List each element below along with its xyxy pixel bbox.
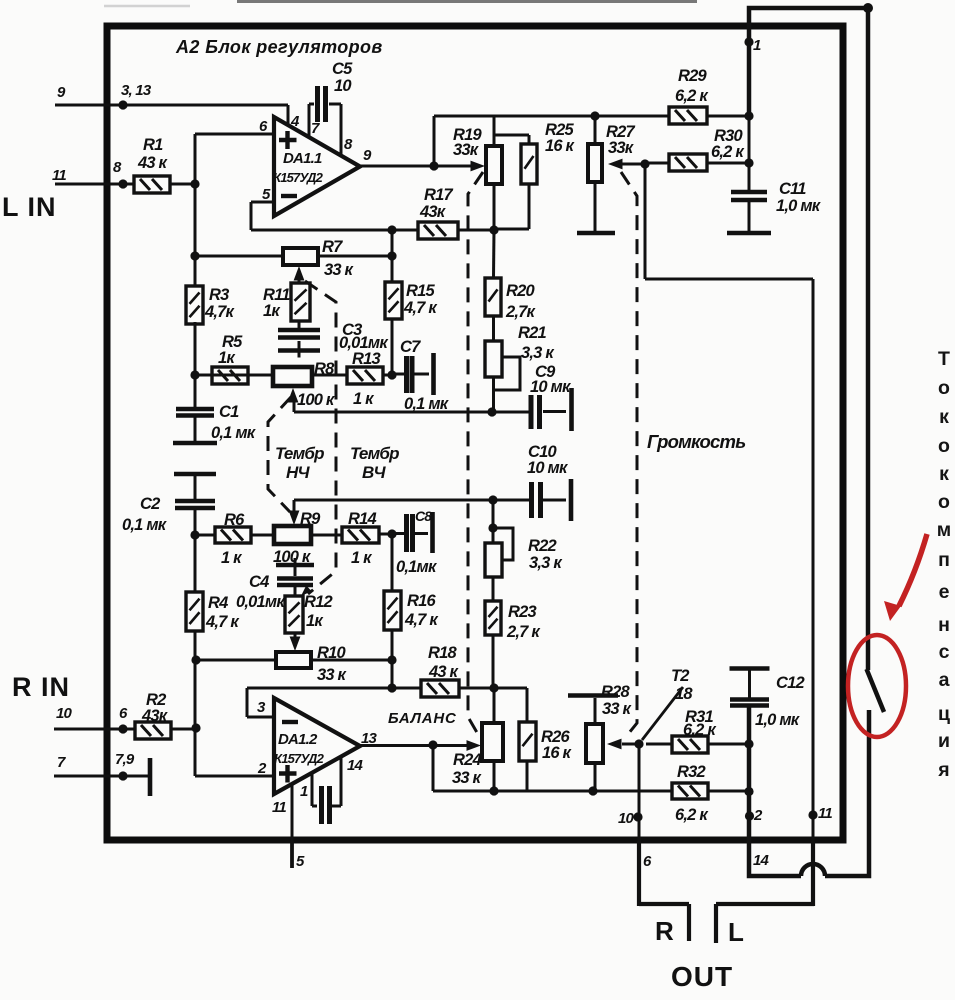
svg-text:10: 10 (334, 77, 352, 95)
svg-text:1к: 1к (263, 302, 281, 320)
svg-text:DA1.1: DA1.1 (283, 150, 322, 167)
svg-text:R9: R9 (300, 510, 321, 528)
svg-text:п: п (938, 549, 950, 571)
svg-text:1,0 мк: 1,0 мк (776, 197, 822, 215)
svg-text:R18: R18 (428, 644, 457, 662)
svg-text:НЧ: НЧ (286, 463, 310, 482)
svg-text:R24: R24 (453, 751, 481, 769)
svg-text:R3: R3 (209, 286, 229, 304)
svg-text:13: 13 (361, 730, 378, 747)
svg-text:R4: R4 (208, 594, 228, 612)
svg-text:н: н (938, 614, 950, 636)
svg-text:R15: R15 (406, 282, 435, 300)
svg-text:33 к: 33 к (602, 700, 633, 718)
svg-text:100 к: 100 к (297, 391, 336, 409)
svg-text:C11: C11 (779, 180, 806, 198)
svg-text:R6: R6 (224, 511, 245, 529)
svg-text:11: 11 (818, 805, 832, 822)
svg-text:1 к: 1 к (221, 549, 243, 567)
svg-text:6,2 к: 6,2 к (711, 143, 745, 161)
svg-text:C12: C12 (776, 674, 804, 692)
svg-text:к: к (939, 463, 949, 485)
svg-text:C2: C2 (140, 495, 160, 513)
svg-text:100 к: 100 к (273, 548, 312, 566)
svg-text:R32: R32 (677, 763, 705, 781)
svg-text:C7: C7 (400, 338, 421, 356)
svg-text:R: R (655, 916, 674, 946)
svg-text:2: 2 (257, 760, 267, 777)
svg-text:14: 14 (347, 757, 364, 774)
svg-text:о: о (938, 491, 950, 513)
svg-text:0,1 мк: 0,1 мк (211, 424, 257, 442)
svg-text:43 к: 43 к (137, 154, 169, 172)
svg-text:DA1.2: DA1.2 (278, 731, 318, 748)
svg-text:0,01мк: 0,01мк (236, 593, 286, 611)
svg-text:к: к (939, 406, 949, 428)
svg-text:ВЧ: ВЧ (362, 463, 386, 482)
svg-text:C1: C1 (219, 403, 239, 421)
svg-text:о: о (938, 435, 950, 457)
svg-text:43к: 43к (419, 203, 447, 221)
svg-text:е: е (939, 581, 950, 603)
svg-text:Т2: Т2 (671, 667, 689, 685)
svg-text:18: 18 (675, 685, 693, 703)
svg-text:4,7 к: 4,7 к (403, 299, 438, 317)
svg-text:3,3 к: 3,3 к (529, 554, 563, 572)
svg-text:R16: R16 (407, 592, 436, 610)
svg-text:1: 1 (753, 37, 761, 54)
svg-text:10: 10 (56, 705, 73, 722)
svg-text:R13: R13 (352, 350, 380, 368)
svg-text:10: 10 (618, 810, 635, 827)
svg-text:11: 11 (272, 799, 286, 816)
svg-text:R8: R8 (314, 360, 335, 378)
svg-text:ц: ц (938, 703, 950, 725)
svg-text:43 к: 43 к (428, 663, 460, 681)
svg-text:R1: R1 (143, 136, 163, 154)
svg-text:OUT: OUT (671, 961, 733, 992)
svg-text:Тембр: Тембр (275, 444, 324, 463)
svg-text:4: 4 (290, 113, 300, 130)
svg-text:33 к: 33 к (317, 666, 348, 684)
svg-text:я: я (937, 759, 949, 781)
svg-text:1к: 1к (306, 612, 324, 630)
svg-text:C5: C5 (332, 60, 353, 78)
svg-text:а: а (939, 669, 950, 691)
svg-text:R17: R17 (424, 186, 453, 204)
svg-text:0,1мк: 0,1мк (396, 558, 438, 576)
svg-text:11: 11 (52, 167, 66, 184)
svg-text:2: 2 (753, 807, 763, 824)
svg-text:К157УД2: К157УД2 (273, 170, 324, 185)
svg-text:33к: 33к (608, 139, 635, 157)
svg-text:10 мк: 10 мк (527, 459, 569, 477)
svg-text:R28: R28 (601, 683, 630, 701)
svg-text:Тембр: Тембр (350, 444, 399, 463)
svg-text:БАЛАНС: БАЛАНС (388, 710, 457, 727)
svg-text:16 к: 16 к (545, 137, 576, 155)
svg-text:16 к: 16 к (542, 744, 573, 762)
svg-text:R IN: R IN (12, 672, 70, 702)
svg-text:4,7 к: 4,7 к (404, 611, 439, 629)
svg-text:4,7к: 4,7к (204, 303, 236, 321)
svg-text:1: 1 (300, 783, 308, 800)
svg-text:3, 13: 3, 13 (121, 82, 152, 99)
svg-text:с: с (939, 641, 950, 663)
svg-text:R21: R21 (518, 324, 546, 342)
svg-text:43к: 43к (141, 707, 169, 725)
svg-text:R12: R12 (304, 593, 332, 611)
svg-text:1к: 1к (218, 349, 236, 367)
svg-text:33к: 33к (453, 141, 480, 159)
svg-text:1 к: 1 к (353, 390, 375, 408)
svg-text:4,7 к: 4,7 к (205, 613, 240, 631)
svg-text:о: о (938, 377, 950, 399)
svg-text:Т: Т (938, 348, 950, 370)
svg-text:1,0 мк: 1,0 мк (755, 711, 801, 729)
svg-text:2,7к: 2,7к (505, 303, 537, 321)
svg-text:33 к: 33 к (452, 769, 483, 787)
svg-text:R20: R20 (506, 282, 535, 300)
svg-text:2,7 к: 2,7 к (506, 623, 541, 641)
svg-text:6,2 к: 6,2 к (675, 806, 709, 824)
svg-text:К157УД2: К157УД2 (274, 751, 325, 766)
svg-text:1 к: 1 к (351, 549, 373, 567)
svg-text:R7: R7 (322, 238, 343, 256)
svg-text:10 мк: 10 мк (530, 378, 572, 396)
svg-text:м: м (937, 519, 951, 541)
svg-text:0,1 мк: 0,1 мк (122, 516, 168, 534)
svg-text:R22: R22 (528, 537, 556, 555)
svg-text:L IN: L IN (2, 192, 57, 222)
svg-text:3,3 к: 3,3 к (521, 344, 555, 362)
svg-text:R29: R29 (678, 67, 707, 85)
svg-text:6,2 к: 6,2 к (675, 87, 709, 105)
svg-text:R14: R14 (348, 510, 376, 528)
svg-text:Громкость: Громкость (647, 431, 745, 452)
svg-text:C4: C4 (249, 573, 269, 591)
svg-text:А2 Блок регуляторов: А2 Блок регуляторов (175, 37, 383, 57)
svg-text:R23: R23 (508, 603, 536, 621)
svg-text:0,1 мк: 0,1 мк (404, 395, 450, 413)
svg-text:L: L (728, 917, 744, 947)
svg-text:R10: R10 (317, 644, 346, 662)
svg-text:14: 14 (753, 852, 770, 869)
svg-text:33 к: 33 к (324, 261, 355, 279)
svg-text:C8: C8 (415, 508, 432, 524)
svg-text:6,2 к: 6,2 к (683, 721, 717, 739)
svg-text:7,9: 7,9 (115, 751, 135, 768)
svg-text:и: и (938, 730, 950, 752)
